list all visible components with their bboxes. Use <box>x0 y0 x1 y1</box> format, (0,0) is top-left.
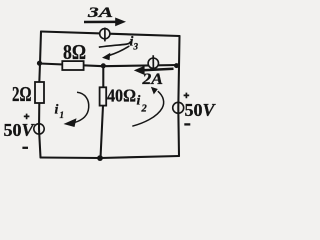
svg-text:1: 1 <box>60 110 65 120</box>
resistor 2ohm <box>35 82 44 103</box>
wire top branch <box>41 32 180 37</box>
svg-text:8Ω: 8Ω <box>63 40 86 64</box>
node junction middle wire / 40ohm branch <box>101 63 106 68</box>
svg-text:50V: 50V <box>4 120 36 140</box>
voltage source 50V right <box>173 102 184 113</box>
resistor 40ohm <box>100 87 107 105</box>
label 50V left with polarity <box>4 114 36 148</box>
svg-text:2Ω: 2Ω <box>12 82 32 106</box>
wire bottom branch <box>41 156 180 158</box>
mesh current arrow i2 <box>132 87 163 126</box>
node junction middle wire / right rail <box>174 63 179 68</box>
node junction bottom wire / 40ohm branch <box>97 155 103 161</box>
svg-text:3A: 3A <box>87 5 113 21</box>
voltage source 50V left <box>34 124 44 134</box>
svg-text:3: 3 <box>133 42 139 52</box>
label 3A with direction arrow <box>84 5 126 26</box>
current source 2A middle <box>148 55 158 70</box>
svg-text:50V: 50V <box>185 100 217 120</box>
svg-text:i: i <box>55 103 59 118</box>
wire left rail upper <box>40 32 41 64</box>
svg-text:i: i <box>137 94 141 109</box>
wire 40ohm branch lower <box>101 106 104 158</box>
label 2A with direction arrow <box>134 66 174 88</box>
wire 40ohm branch upper <box>102 66 104 87</box>
svg-text:40Ω: 40Ω <box>107 86 136 106</box>
svg-text:2: 2 <box>141 104 148 115</box>
svg-text:2A: 2A <box>141 71 163 88</box>
resistor 8ohm <box>62 61 83 70</box>
wire left rail to 2ohm resistor <box>38 64 41 83</box>
branch current arrow i3 <box>99 35 139 61</box>
wire middle branch <box>40 64 178 67</box>
label 50V right with polarity <box>184 93 217 125</box>
mesh current arrow i1 <box>55 92 89 127</box>
wire right rail <box>178 36 179 156</box>
current source 3A top <box>100 28 110 42</box>
wire left rail lower through 50V source <box>39 103 41 158</box>
node junction left rail / middle wire <box>37 61 42 66</box>
